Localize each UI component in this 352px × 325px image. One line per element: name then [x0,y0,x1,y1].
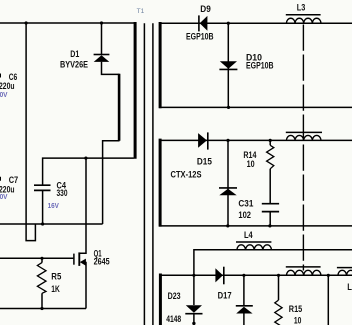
svg-text:EGP10B: EGP10B [186,32,214,42]
svg-text:R5: R5 [51,271,61,281]
svg-text:D9: D9 [200,4,211,14]
svg-text:L4: L4 [244,230,253,240]
svg-text:10: 10 [294,315,302,325]
svg-text:50V: 50V [0,194,8,201]
svg-text:D17: D17 [218,291,232,301]
svg-text:10: 10 [247,159,255,169]
svg-text:50V: 50V [0,92,8,99]
svg-text:L3: L3 [297,2,306,12]
svg-text:EGP10B: EGP10B [246,61,274,71]
svg-text:1K: 1K [51,284,60,294]
svg-text:R15: R15 [289,304,302,314]
svg-text:L5: L5 [347,282,352,292]
svg-text:BYV26E: BYV26E [60,59,88,69]
svg-text:C31: C31 [238,198,253,208]
svg-text:330: 330 [57,188,68,198]
svg-text:16V: 16V [48,203,60,210]
svg-text:T1: T1 [137,8,145,15]
svg-text:102: 102 [238,210,251,220]
svg-text:2645: 2645 [94,256,110,266]
svg-text:D15: D15 [197,157,212,167]
svg-text:D23: D23 [168,291,181,301]
svg-text:CTX-12S: CTX-12S [171,170,202,180]
svg-text:D1: D1 [70,49,79,59]
svg-text:4148: 4148 [166,314,181,324]
svg-text:220u: 220u [0,81,15,91]
